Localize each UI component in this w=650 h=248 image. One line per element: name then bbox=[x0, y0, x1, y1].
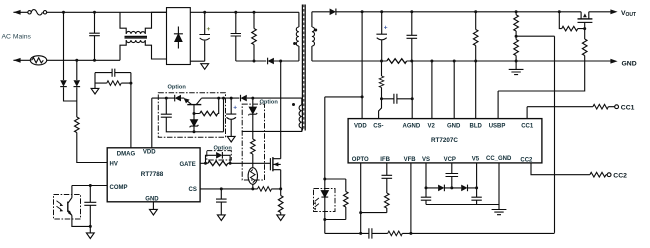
svg-text:COMP: COMP bbox=[110, 185, 128, 191]
svg-text:CC1: CC1 bbox=[621, 104, 635, 111]
svg-text:+: + bbox=[207, 26, 211, 33]
svg-text:AGND: AGND bbox=[403, 123, 421, 129]
svg-text:BLD: BLD bbox=[470, 123, 483, 129]
svg-text:CC2: CC2 bbox=[613, 172, 627, 179]
svg-text:CC_GND: CC_GND bbox=[486, 156, 512, 162]
svg-text:V2: V2 bbox=[428, 123, 436, 129]
svg-text:VOUT: VOUT bbox=[621, 10, 636, 18]
svg-text:CC2: CC2 bbox=[520, 158, 533, 164]
svg-text:CC1: CC1 bbox=[521, 123, 534, 129]
svg-text:HV: HV bbox=[110, 162, 118, 168]
svg-text:VCP: VCP bbox=[444, 157, 456, 163]
svg-text:Option: Option bbox=[260, 99, 279, 105]
svg-text:RT7788: RT7788 bbox=[141, 171, 164, 178]
svg-text:VFB: VFB bbox=[404, 157, 417, 163]
svg-text:AC Mains: AC Mains bbox=[2, 34, 32, 41]
svg-text:OPTO: OPTO bbox=[352, 157, 369, 163]
svg-text:+: + bbox=[233, 105, 237, 112]
svg-text:+: + bbox=[384, 25, 388, 32]
svg-text:V5: V5 bbox=[472, 156, 480, 162]
svg-text:GND: GND bbox=[145, 196, 159, 202]
svg-text:USBP: USBP bbox=[489, 123, 506, 129]
svg-text:RT7207C: RT7207C bbox=[431, 137, 458, 144]
svg-text:VDD: VDD bbox=[143, 150, 156, 156]
svg-text:CS: CS bbox=[189, 187, 197, 193]
svg-text:GATE: GATE bbox=[180, 162, 196, 168]
svg-text:Option: Option bbox=[168, 85, 187, 91]
svg-text:IFB: IFB bbox=[380, 157, 390, 163]
svg-text:GND: GND bbox=[447, 123, 461, 129]
svg-text:VDD: VDD bbox=[354, 123, 367, 129]
svg-text:VS: VS bbox=[422, 157, 430, 163]
svg-text:Option: Option bbox=[214, 145, 233, 151]
svg-text:DMAG: DMAG bbox=[117, 152, 136, 158]
svg-text:GND: GND bbox=[622, 61, 637, 68]
svg-text:CS-: CS- bbox=[373, 123, 383, 129]
